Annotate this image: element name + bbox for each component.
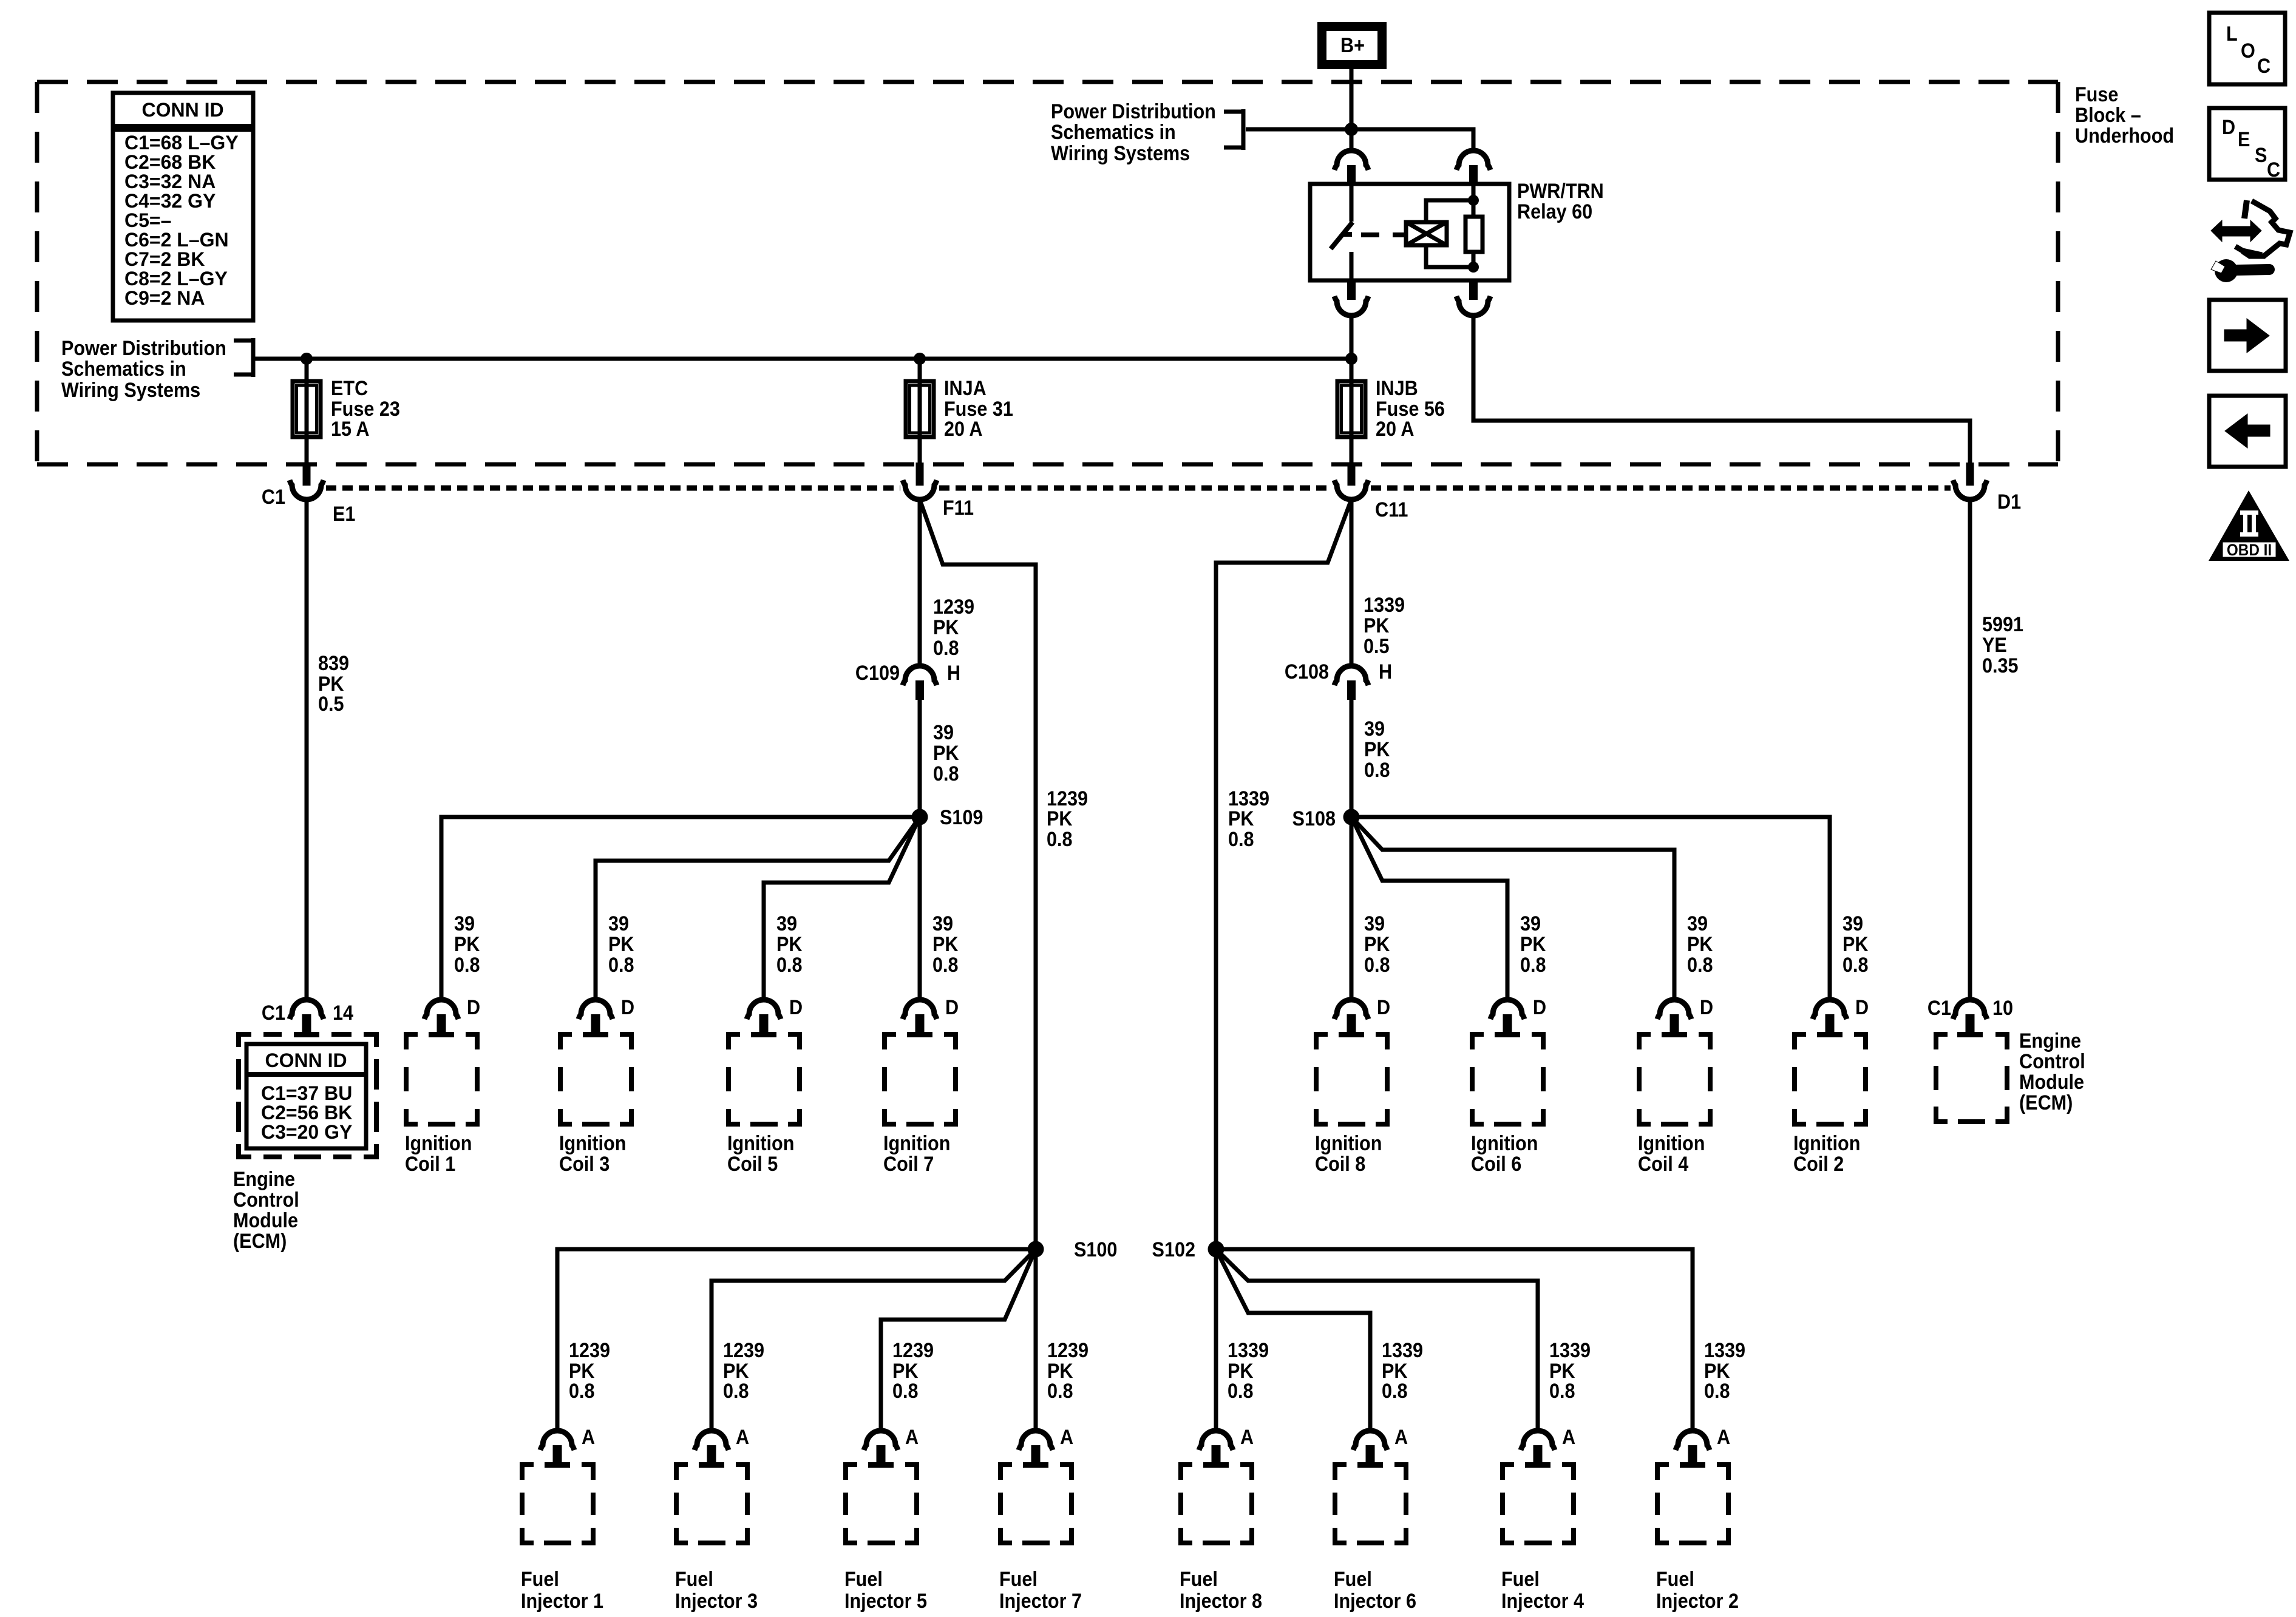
svg-text:OBD II: OBD II bbox=[2227, 541, 2272, 559]
connector ignition coil 2 pin D bbox=[1813, 1000, 1847, 1032]
wire: S108 to ignition coil 2 bbox=[1351, 817, 1830, 1000]
svg-text:INJB: INJB bbox=[1376, 377, 1418, 400]
wire: bus from bracket to relay coil pin bbox=[1246, 129, 1473, 151]
svg-text:Module: Module bbox=[2019, 1071, 2084, 1094]
label: wire 39 PK 0.8 (coil 8) bbox=[1364, 912, 1390, 977]
label: Fuel Injector 3 bbox=[675, 1568, 758, 1613]
svg-text:C108: C108 bbox=[1285, 660, 1329, 683]
svg-text:C1=68 L–GY: C1=68 L–GY bbox=[124, 132, 239, 154]
wire: S100 to fuel injector 7 bbox=[1034, 1249, 1038, 1431]
label: wire 39 PK 0.8 (coil 1) bbox=[454, 912, 480, 977]
svg-text:39: 39 bbox=[1364, 912, 1385, 935]
wire: F11 branch to S100 riser bbox=[920, 500, 1036, 1245]
svg-text:O: O bbox=[2241, 39, 2255, 63]
label: wire 39 PK 0.8 (coil 4) bbox=[1687, 912, 1713, 977]
svg-text:D: D bbox=[945, 996, 959, 1019]
connector fuel injector 3 pin A bbox=[695, 1431, 729, 1462]
svg-text:0.8: 0.8 bbox=[723, 1380, 749, 1403]
wire: 1339 PK 0.5 from C11 to C108 bbox=[1350, 500, 1354, 667]
connector ignition coil 1 pin D bbox=[424, 1000, 458, 1032]
svg-text:0.8: 0.8 bbox=[1520, 954, 1546, 977]
svg-text:Power Distribution: Power Distribution bbox=[1051, 100, 1216, 123]
connector C109 pin H bbox=[903, 666, 937, 700]
fuse INJB fuse 56 bbox=[1337, 381, 1365, 437]
junction: B+ bus node bbox=[1345, 123, 1358, 136]
svg-text:PK: PK bbox=[1364, 738, 1390, 761]
wire: 5991 YE 0.35 to ECM bbox=[1968, 500, 1972, 1000]
svg-text:D: D bbox=[621, 996, 634, 1019]
connector C11 at fuse block output bbox=[1334, 463, 1368, 500]
connector ignition coil 6 pin D bbox=[1490, 1000, 1524, 1032]
label: INJA fuse 31 bbox=[944, 377, 1013, 441]
ignition coil 1 box bbox=[404, 1032, 480, 1127]
svg-text:D: D bbox=[789, 996, 803, 1019]
svg-text:Fuel: Fuel bbox=[1334, 1568, 1372, 1591]
wire: relay pin 87 to bus bbox=[1350, 314, 1354, 359]
label: wire 1339 PK 0.8 (S102 feed) bbox=[1228, 787, 1269, 851]
svg-text:YE: YE bbox=[1982, 634, 2007, 657]
svg-text:PK: PK bbox=[1047, 807, 1073, 830]
connector ECM C1 pin 14 bbox=[290, 1000, 324, 1032]
label: wire 39 PK 0.8 (coil 7) bbox=[932, 912, 959, 977]
svg-text:S100: S100 bbox=[1074, 1238, 1117, 1261]
svg-text:Fuse: Fuse bbox=[2075, 83, 2118, 106]
svg-text:Injector 6: Injector 6 bbox=[1334, 1590, 1416, 1613]
svg-text:S108: S108 bbox=[1292, 807, 1336, 830]
svg-text:Control: Control bbox=[2019, 1050, 2085, 1073]
fuel injector 3 box bbox=[674, 1462, 750, 1545]
connector arc: relay pin 86 (bottom right) bbox=[1456, 280, 1490, 316]
wire: 39 PK 0.8 C109 to S109 bbox=[918, 700, 922, 817]
svg-text:C: C bbox=[2257, 55, 2271, 78]
svg-text:39: 39 bbox=[776, 912, 797, 935]
svg-text:Ignition: Ignition bbox=[727, 1132, 794, 1155]
fuse block underhood dashed enclosure box bbox=[37, 82, 2058, 464]
svg-text:Control: Control bbox=[233, 1188, 299, 1212]
svg-text:C1: C1 bbox=[262, 486, 285, 509]
ignition coil 5 box bbox=[726, 1032, 802, 1127]
relay resistor bbox=[1466, 217, 1483, 252]
svg-text:Schematics in: Schematics in bbox=[1051, 121, 1176, 144]
label: Ignition Coil 6 bbox=[1471, 1132, 1538, 1176]
label: wire 1239 PK 0.8 (injector 7) bbox=[1047, 1339, 1089, 1403]
svg-text:Coil 1: Coil 1 bbox=[405, 1153, 455, 1176]
svg-text:PK: PK bbox=[932, 933, 959, 956]
connector fuel injector 8 pin A bbox=[1199, 1431, 1233, 1462]
svg-text:Ignition: Ignition bbox=[1638, 1132, 1705, 1155]
ignition coil 7 box bbox=[882, 1032, 958, 1127]
relay coil (X box) bbox=[1406, 200, 1473, 267]
connector arc: relay coil pin (top right) bbox=[1456, 151, 1490, 184]
svg-text:20 A: 20 A bbox=[944, 418, 982, 441]
label: wire 839 PK 0.5 bbox=[318, 652, 349, 716]
label: Fuel Injector 2 bbox=[1656, 1568, 1739, 1613]
svg-text:0.35: 0.35 bbox=[1982, 654, 2019, 677]
svg-text:C1=37 BU: C1=37 BU bbox=[261, 1082, 352, 1104]
svg-text:A: A bbox=[736, 1426, 749, 1449]
svg-text:Injector 4: Injector 4 bbox=[1501, 1590, 1584, 1613]
svg-text:PK: PK bbox=[1687, 933, 1713, 956]
connector ignition coil 4 pin D bbox=[1657, 1000, 1691, 1032]
ignition coil 8 box bbox=[1314, 1032, 1390, 1127]
relay switch blade bbox=[1331, 184, 1353, 280]
icon: left arrow box bbox=[2209, 396, 2286, 467]
svg-text:0.8: 0.8 bbox=[608, 954, 634, 977]
icon: OBD II triangle bbox=[2209, 490, 2289, 561]
label: Ignition Coil 1 bbox=[405, 1132, 472, 1176]
relay U1 PWR/TRN Relay 60 box bbox=[1310, 184, 1509, 280]
svg-text:39: 39 bbox=[454, 912, 475, 935]
svg-text:Coil 8: Coil 8 bbox=[1315, 1153, 1365, 1176]
wire: bus through ETC fuse 23 bbox=[305, 359, 309, 464]
svg-text:1239: 1239 bbox=[933, 595, 974, 619]
fuel injector 6 box bbox=[1333, 1462, 1408, 1545]
svg-text:Injector 1: Injector 1 bbox=[521, 1590, 603, 1613]
svg-text:C1: C1 bbox=[262, 1002, 285, 1025]
svg-text:C6=2 L–GN: C6=2 L–GN bbox=[124, 229, 229, 251]
svg-text:20 A: 20 A bbox=[1376, 418, 1414, 441]
svg-text:PK: PK bbox=[1520, 933, 1546, 956]
svg-text:PK: PK bbox=[776, 933, 803, 956]
svg-text:Fuel: Fuel bbox=[1501, 1568, 1540, 1591]
icon: harness service symbol (arrow, outline, wrench) bbox=[2211, 200, 2290, 282]
svg-text:0.8: 0.8 bbox=[1687, 954, 1713, 977]
svg-text:PK: PK bbox=[1364, 614, 1390, 637]
CONN ID table (fuse block underhood) bbox=[113, 93, 253, 320]
svg-text:0.5: 0.5 bbox=[318, 693, 344, 716]
svg-text:A: A bbox=[1240, 1426, 1254, 1449]
junction: relay resistor top bbox=[1468, 195, 1479, 206]
label: ETC fuse 23 bbox=[331, 377, 400, 441]
svg-text:1239: 1239 bbox=[892, 1339, 934, 1362]
svg-text:PK: PK bbox=[1843, 933, 1869, 956]
svg-text:S109: S109 bbox=[940, 806, 983, 829]
harness connector dotted line bbox=[326, 486, 1951, 491]
svg-text:0.8: 0.8 bbox=[933, 762, 959, 785]
label: Ignition Coil 5 bbox=[727, 1132, 794, 1176]
connector C108 pin H bbox=[1334, 666, 1368, 700]
label: Engine Control Module (ECM) right bbox=[2019, 1029, 2085, 1114]
svg-text:0.8: 0.8 bbox=[892, 1380, 919, 1403]
fuse ETC fuse 23 bbox=[293, 381, 321, 437]
svg-text:D: D bbox=[467, 996, 480, 1019]
CONN ID table (ECM) bbox=[246, 1044, 366, 1148]
svg-text:1239: 1239 bbox=[1047, 1339, 1089, 1362]
svg-text:10: 10 bbox=[1992, 997, 2013, 1020]
label: Ignition Coil 7 bbox=[883, 1132, 950, 1176]
connector arc: relay switch pin (top left) bbox=[1334, 151, 1368, 184]
label: Fuel Injector 7 bbox=[999, 1568, 1082, 1613]
svg-text:Fuel: Fuel bbox=[1656, 1568, 1694, 1591]
svg-text:A: A bbox=[1717, 1426, 1730, 1449]
label: Engine Control Module (ECM) left bbox=[233, 1168, 299, 1253]
wire: S100 to fuel injector 1 bbox=[557, 1249, 1036, 1431]
svg-text:E1: E1 bbox=[333, 503, 355, 526]
junction: bus at INJB fuse bbox=[1345, 353, 1357, 365]
svg-text:D: D bbox=[1377, 996, 1390, 1019]
svg-text:C3=32 NA: C3=32 NA bbox=[124, 171, 216, 192]
svg-text:Coil 5: Coil 5 bbox=[727, 1153, 778, 1176]
svg-text:Ignition: Ignition bbox=[1315, 1132, 1382, 1155]
wire: S109 to ignition coil 7 bbox=[918, 817, 922, 1000]
svg-text:Injector 3: Injector 3 bbox=[675, 1590, 758, 1613]
svg-text:39: 39 bbox=[933, 721, 954, 744]
svg-text:Ignition: Ignition bbox=[1471, 1132, 1538, 1155]
svg-text:39: 39 bbox=[1520, 912, 1541, 935]
fuel injector 5 box bbox=[843, 1462, 919, 1545]
svg-text:A: A bbox=[905, 1426, 919, 1449]
svg-text:Coil 6: Coil 6 bbox=[1471, 1153, 1521, 1176]
wire: main power bus bbox=[255, 357, 1351, 361]
svg-text:C11: C11 bbox=[1375, 498, 1408, 521]
svg-text:Fuel: Fuel bbox=[844, 1568, 883, 1591]
connector fuel injector 5 pin A bbox=[864, 1431, 898, 1462]
svg-text:Ignition: Ignition bbox=[405, 1132, 472, 1155]
wire: S102 to fuel injector 8 bbox=[1214, 1249, 1218, 1431]
label: Fuel Injector 6 bbox=[1334, 1568, 1416, 1613]
connector C1/E1 at fuse block output bbox=[290, 463, 324, 500]
wire: S102 to fuel injector 6 bbox=[1216, 1249, 1370, 1431]
label: wire 1339 PK 0.8 (injector 6) bbox=[1382, 1339, 1423, 1403]
connector arc: relay pin 87 (bottom left) bbox=[1334, 280, 1368, 316]
svg-text:ETC: ETC bbox=[331, 377, 368, 400]
wire: S102 to fuel injector 4 bbox=[1216, 1249, 1538, 1431]
svg-text:839: 839 bbox=[318, 652, 349, 675]
splice S102 bbox=[1208, 1241, 1224, 1258]
svg-text:D1: D1 bbox=[1997, 490, 2021, 514]
svg-text:1339: 1339 bbox=[1549, 1339, 1591, 1362]
label: wire 1239 PK 0.8 (S100 feed) bbox=[1047, 787, 1088, 851]
svg-text:Fuel: Fuel bbox=[1180, 1568, 1218, 1591]
icon: right arrow box bbox=[2209, 300, 2286, 371]
svg-text:CONN ID: CONN ID bbox=[265, 1049, 347, 1071]
svg-text:Fuel: Fuel bbox=[521, 1568, 559, 1591]
label: wire 39 PK 0.8 (C109) bbox=[933, 721, 959, 785]
wire: 839 PK 0.5 to ECM bbox=[305, 500, 309, 1000]
svg-text:Schematics in: Schematics in bbox=[61, 358, 186, 381]
wire: B+ down to relay pin bbox=[1350, 65, 1354, 151]
svg-text:39: 39 bbox=[932, 912, 953, 935]
svg-text:Relay 60: Relay 60 bbox=[1517, 200, 1592, 223]
svg-text:Power Distribution: Power Distribution bbox=[61, 337, 226, 360]
svg-text:PK: PK bbox=[1228, 807, 1254, 830]
svg-text:39: 39 bbox=[1687, 912, 1708, 935]
svg-text:D: D bbox=[1533, 996, 1546, 1019]
svg-text:Ignition: Ignition bbox=[883, 1132, 950, 1155]
wire: S108 to ignition coil 4 bbox=[1351, 817, 1674, 1000]
label: Fuse Block - Underhood bbox=[2075, 83, 2174, 147]
svg-text:Injector 7: Injector 7 bbox=[999, 1590, 1082, 1613]
ignition coil 3 box bbox=[558, 1032, 634, 1127]
svg-text:C8=2 L–GY: C8=2 L–GY bbox=[124, 268, 228, 290]
svg-text:C2=68 BK: C2=68 BK bbox=[124, 151, 216, 173]
connector fuel injector 6 pin A bbox=[1353, 1431, 1387, 1462]
svg-text:A: A bbox=[1394, 1426, 1408, 1449]
svg-text:0.8: 0.8 bbox=[1047, 1380, 1073, 1403]
label: wire 39 PK 0.8 (coil 2) bbox=[1843, 912, 1869, 977]
svg-text:Ignition: Ignition bbox=[1793, 1132, 1860, 1155]
svg-text:0.8: 0.8 bbox=[932, 954, 959, 977]
wire: S108 to ignition coil 6 bbox=[1351, 817, 1507, 1000]
connector fuel injector 7 pin A bbox=[1019, 1431, 1053, 1462]
svg-text:INJA: INJA bbox=[944, 377, 987, 400]
splice S100 bbox=[1028, 1241, 1044, 1258]
fuel injector 8 box bbox=[1178, 1462, 1254, 1545]
svg-text:0.8: 0.8 bbox=[1364, 954, 1390, 977]
connector ignition coil 7 pin D bbox=[903, 1000, 937, 1032]
ignition coil 2 box bbox=[1792, 1032, 1868, 1127]
svg-text:A: A bbox=[1060, 1426, 1073, 1449]
svg-text:Engine: Engine bbox=[2019, 1029, 2081, 1053]
svg-text:Underhood: Underhood bbox=[2075, 124, 2174, 147]
svg-text:1339: 1339 bbox=[1228, 1339, 1269, 1362]
svg-text:CONN ID: CONN ID bbox=[141, 99, 223, 121]
ECM module dashed box (right) bbox=[1934, 1032, 2009, 1124]
label: Ignition Coil 3 bbox=[559, 1132, 626, 1176]
svg-text:C7=2 BK: C7=2 BK bbox=[124, 248, 205, 270]
label: wire 1239 PK 0.8 (injector 3) bbox=[723, 1339, 764, 1403]
splice S108 bbox=[1343, 809, 1360, 825]
svg-text:C1: C1 bbox=[1927, 997, 1951, 1020]
splice S109 bbox=[912, 809, 928, 825]
ignition coil 6 box bbox=[1470, 1032, 1546, 1127]
label+bracket: Power Distribution Schematics in Wiring Systems (left) bbox=[61, 337, 253, 402]
label: wire 39 PK 0.8 (coil 6) bbox=[1520, 912, 1546, 977]
wire: S100 to fuel injector 3 bbox=[712, 1249, 1036, 1431]
ignition coil 4 box bbox=[1637, 1032, 1713, 1127]
svg-text:0.8: 0.8 bbox=[1047, 828, 1073, 851]
label: Fuel Injector 4 bbox=[1501, 1568, 1584, 1613]
svg-text:(ECM): (ECM) bbox=[233, 1230, 287, 1253]
wire: S102 to fuel injector 2 bbox=[1216, 1249, 1693, 1431]
svg-text:H: H bbox=[1379, 660, 1392, 683]
label: wire 1239 PK 0.8 (F11) bbox=[933, 595, 974, 660]
svg-text:C2=56 BK: C2=56 BK bbox=[261, 1102, 352, 1124]
label: Ignition Coil 2 bbox=[1793, 1132, 1860, 1176]
svg-text:(ECM): (ECM) bbox=[2019, 1091, 2073, 1114]
svg-text:0.8: 0.8 bbox=[1228, 1380, 1254, 1403]
fuse INJA fuse 31 bbox=[906, 381, 934, 437]
svg-text:C5=–: C5=– bbox=[124, 209, 171, 231]
svg-text:1339: 1339 bbox=[1704, 1339, 1745, 1362]
svg-text:39: 39 bbox=[1843, 912, 1863, 935]
label: wire 1239 PK 0.8 (injector 5) bbox=[892, 1339, 934, 1403]
label: wire 1339 PK 0.8 (injector 4) bbox=[1549, 1339, 1591, 1403]
icon: LOC box bbox=[2209, 13, 2285, 84]
svg-text:Block –: Block – bbox=[2075, 104, 2141, 127]
label: PWR/TRN Relay 60 bbox=[1517, 180, 1604, 223]
connector F11 at fuse block output bbox=[903, 463, 937, 500]
svg-text:1339: 1339 bbox=[1364, 594, 1405, 617]
wire: relay pin 86 over to D1 bbox=[1473, 314, 1970, 464]
svg-text:0.8: 0.8 bbox=[1704, 1380, 1730, 1403]
label+bracket: Power Distribution Schematics in Wiring Systems (top) bbox=[1051, 100, 1243, 165]
svg-text:5991: 5991 bbox=[1982, 613, 2023, 636]
svg-text:B+: B+ bbox=[1340, 34, 1365, 57]
label: Fuel Injector 5 bbox=[844, 1568, 927, 1613]
svg-text:PK: PK bbox=[1364, 933, 1390, 956]
svg-text:0.5: 0.5 bbox=[1364, 635, 1390, 658]
svg-text:D: D bbox=[1855, 996, 1869, 1019]
svg-text:A: A bbox=[582, 1426, 595, 1449]
label: wire 39 PK 0.8 (C108) bbox=[1364, 717, 1390, 782]
svg-text:PWR/TRN: PWR/TRN bbox=[1517, 180, 1604, 203]
connector fuel injector 2 pin A bbox=[1676, 1431, 1710, 1462]
wire: S109 to ignition coil 5 bbox=[764, 817, 920, 1000]
label: Fuel Injector 1 bbox=[521, 1568, 603, 1613]
junction: relay resistor bottom bbox=[1468, 262, 1479, 273]
label: Ignition Coil 8 bbox=[1315, 1132, 1382, 1176]
fuel injector 4 box bbox=[1500, 1462, 1576, 1545]
svg-text:Coil 7: Coil 7 bbox=[883, 1153, 934, 1176]
svg-text:Injector 8: Injector 8 bbox=[1180, 1590, 1262, 1613]
svg-text:C109: C109 bbox=[855, 662, 900, 685]
svg-text:Injector 5: Injector 5 bbox=[844, 1590, 927, 1613]
svg-text:Module: Module bbox=[233, 1209, 298, 1232]
wire: S108 to ignition coil 8 bbox=[1350, 817, 1354, 1000]
svg-text:D: D bbox=[1700, 996, 1713, 1019]
svg-text:E: E bbox=[2238, 128, 2250, 151]
svg-text:Injector 2: Injector 2 bbox=[1656, 1590, 1739, 1613]
wire: relay coil branch vertical bbox=[1472, 184, 1476, 267]
B+ battery feed symbol bbox=[1322, 27, 1382, 65]
svg-text:1239: 1239 bbox=[723, 1339, 764, 1362]
icon: DESC box bbox=[2209, 108, 2285, 181]
connector fuel injector 4 pin A bbox=[1521, 1431, 1555, 1462]
svg-text:Ignition: Ignition bbox=[559, 1132, 626, 1155]
relay actuator dashed link bbox=[1361, 232, 1406, 237]
svg-text:0.8: 0.8 bbox=[1843, 954, 1869, 977]
svg-text:PK: PK bbox=[933, 616, 959, 639]
svg-text:Coil 3: Coil 3 bbox=[559, 1153, 610, 1176]
label: wire 1339 PK 0.8 (injector 8) bbox=[1228, 1339, 1269, 1403]
svg-text:PK: PK bbox=[933, 742, 959, 765]
connector fuel injector 1 pin A bbox=[540, 1431, 574, 1462]
svg-text:C4=32 GY: C4=32 GY bbox=[124, 190, 216, 212]
svg-text:0.8: 0.8 bbox=[1364, 759, 1390, 782]
label: wire 5991 YE 0.35 bbox=[1982, 613, 2023, 677]
junction: bus at INJA fuse bbox=[914, 353, 926, 365]
svg-text:Coil 4: Coil 4 bbox=[1638, 1153, 1688, 1176]
svg-text:Coil 2: Coil 2 bbox=[1793, 1153, 1844, 1176]
svg-text:C9=2 NA: C9=2 NA bbox=[124, 287, 205, 309]
connector ignition coil 8 pin D bbox=[1334, 1000, 1368, 1032]
wire: bus through INJA fuse 31 bbox=[918, 359, 922, 464]
label: wire 1239 PK 0.8 (injector 1) bbox=[569, 1339, 610, 1403]
svg-text:0.8: 0.8 bbox=[454, 954, 480, 977]
svg-text:A: A bbox=[1562, 1426, 1575, 1449]
svg-text:0.8: 0.8 bbox=[1549, 1380, 1575, 1403]
fuel injector 2 box bbox=[1655, 1462, 1731, 1545]
svg-text:0.8: 0.8 bbox=[1228, 828, 1254, 851]
svg-text:S102: S102 bbox=[1152, 1238, 1195, 1261]
connector ECM C1 pin 10 bbox=[1953, 1000, 1987, 1032]
svg-text:0.8: 0.8 bbox=[1382, 1380, 1408, 1403]
svg-text:D: D bbox=[2222, 116, 2235, 139]
label: wire 39 PK 0.8 (coil 5) bbox=[776, 912, 803, 977]
svg-text:L: L bbox=[2226, 22, 2238, 46]
label: wire 1339 PK 0.8 (injector 2) bbox=[1704, 1339, 1745, 1403]
label: Fuel Injector 8 bbox=[1180, 1568, 1262, 1613]
fuel injector 7 box bbox=[998, 1462, 1074, 1545]
junction: bus at ETC fuse bbox=[301, 353, 313, 365]
fuel injector 1 box bbox=[520, 1462, 596, 1545]
svg-text:Wiring Systems: Wiring Systems bbox=[1051, 142, 1190, 165]
svg-text:0.8: 0.8 bbox=[776, 954, 803, 977]
wire: S100 to fuel injector 5 bbox=[881, 1249, 1036, 1431]
wire: S109 to ignition coil 3 bbox=[596, 817, 920, 1000]
svg-text:S: S bbox=[2255, 144, 2267, 167]
